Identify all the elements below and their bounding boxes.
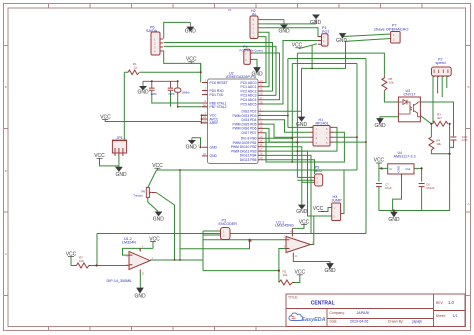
svg-text:B: B — [5, 85, 7, 89]
svg-text:GND: GND — [296, 209, 308, 215]
svg-text:A: A — [467, 202, 469, 206]
svg-text:AREF: AREF — [210, 121, 219, 125]
svg-text:GND: GND — [374, 123, 386, 129]
svg-text:AMS1117-3.3: AMS1117-3.3 — [394, 155, 416, 159]
svg-text:Sheet:: Sheet: — [436, 314, 446, 318]
svg-text:A: A — [5, 252, 7, 256]
svg-text:22PF: 22PF — [168, 92, 175, 96]
svg-text:In: In — [390, 167, 393, 171]
svg-text:PB7 XTAL2: PB7 XTAL2 — [210, 105, 227, 109]
svg-text:VCC: VCC — [374, 158, 385, 164]
svg-text:VCC: VCC — [313, 206, 324, 212]
svg-text:10uF: 10uF — [385, 186, 392, 190]
svg-text:GND: GND — [137, 90, 149, 96]
svg-text:ATMEGA328P-PU: ATMEGA328P-PU — [226, 75, 257, 79]
svg-text:PC5 ADC5: PC5 ADC5 — [241, 102, 257, 106]
svg-text:DIP-14_300MIL: DIP-14_300MIL — [107, 279, 133, 283]
svg-text:SAIDA: SAIDA — [146, 29, 158, 33]
svg-text:1.0: 1.0 — [448, 300, 454, 305]
svg-text:ENCODER: ENCODER — [219, 222, 238, 226]
svg-text:GND: GND — [397, 165, 401, 173]
svg-text:PC (Fim de Curso): PC (Fim de Curso) — [240, 49, 263, 53]
svg-text:GND: GND — [153, 217, 165, 223]
svg-text:GND: GND — [210, 154, 218, 158]
svg-text:Out: Out — [406, 167, 411, 171]
svg-text:DIG7 PD7: DIG7 PD7 — [241, 131, 256, 135]
svg-text:Date:: Date: — [330, 319, 338, 323]
svg-text:RF2401: RF2401 — [316, 121, 329, 125]
svg-text:1k: 1k — [134, 66, 138, 70]
svg-text:BLU: BLU — [315, 169, 323, 173]
svg-text:Trimpot: Trimpot — [133, 194, 143, 198]
svg-text:GND: GND — [134, 294, 146, 300]
svg-text:GND: GND — [186, 145, 198, 151]
svg-text:PC6 RESET: PC6 RESET — [210, 81, 228, 85]
svg-text:POT: POT — [322, 30, 330, 34]
svg-text:B: B — [467, 85, 469, 89]
svg-text:GND: GND — [278, 28, 290, 34]
svg-text:CENTRAL: CENTRAL — [311, 300, 335, 306]
svg-text:JP1: JP1 — [117, 136, 123, 140]
svg-text:Company:: Company: — [330, 311, 346, 315]
svg-text:GND: GND — [296, 122, 308, 128]
svg-text:10k: 10k — [283, 273, 288, 277]
svg-text:REV:: REV: — [436, 301, 444, 305]
svg-text:speed: speed — [436, 61, 446, 65]
svg-text:LM324N: LM324N — [122, 241, 136, 245]
svg-text:GND: GND — [324, 268, 336, 274]
svg-text:22PF: 22PF — [151, 92, 158, 96]
svg-text:JAPAJK: JAPAJK — [357, 311, 371, 315]
svg-text:TITLE:: TITLE: — [288, 296, 298, 300]
svg-text:GND: GND — [115, 172, 127, 178]
svg-text:japajk: japajk — [412, 319, 423, 323]
svg-text:GND: GND — [210, 146, 218, 150]
svg-text:PD1 TXD: PD1 TXD — [210, 93, 224, 97]
svg-text:10k: 10k — [436, 142, 441, 146]
svg-text:47uF: 47uF — [462, 138, 468, 142]
svg-text:DIG13 PB5: DIG13 PB5 — [240, 158, 257, 162]
svg-text:2019-04-26: 2019-04-26 — [350, 319, 368, 323]
svg-text:GND: GND — [185, 29, 197, 35]
svg-text:CNY17: CNY17 — [404, 92, 416, 96]
svg-text:470uF: 470uF — [426, 186, 435, 190]
svg-text:B: B — [5, 169, 7, 173]
svg-text:chave OPERACAO: chave OPERACAO — [374, 26, 408, 31]
svg-text:GND: GND — [388, 217, 400, 223]
svg-text:10k: 10k — [389, 80, 394, 84]
svg-text:Drawn By:: Drawn By: — [388, 319, 404, 323]
svg-text:10k: 10k — [79, 259, 84, 263]
svg-text:LM3245NG: LM3245NG — [275, 224, 294, 228]
svg-text:1/1: 1/1 — [453, 314, 458, 318]
svg-text:GND: GND — [336, 38, 348, 44]
svg-text:IN: IN — [252, 12, 256, 16]
svg-text:16MHz: 16MHz — [182, 91, 191, 95]
svg-text:4k7: 4k7 — [437, 116, 442, 120]
svg-text:10: 10 — [228, 8, 232, 12]
svg-text:GND: GND — [310, 20, 322, 26]
svg-text:JUMP: JUMP — [332, 199, 343, 203]
svg-text:EasyEDA: EasyEDA — [302, 317, 326, 323]
